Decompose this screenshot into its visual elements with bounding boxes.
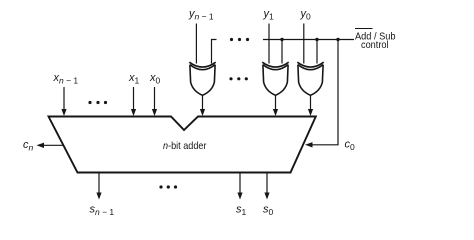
svg-text:cn: cn <box>23 139 34 153</box>
node s_{n-1} label <box>90 204 115 218</box>
svg-text:control: control <box>361 40 389 51</box>
wire XOR U2 output to adder with arrow <box>275 95 277 110</box>
svg-text:s1: s1 <box>236 204 247 218</box>
overline over Add <box>355 28 373 30</box>
svg-text:x0: x0 <box>149 72 161 86</box>
wire XOR U3 output to adder with arrow <box>310 95 312 110</box>
wire Add/Sub control horizontal line <box>263 39 354 41</box>
Add/Sub control label <box>355 32 396 52</box>
svg-text:y0: y0 <box>300 8 312 22</box>
wire y_1 to XOR U2 left input <box>268 24 270 64</box>
wire x_1 input arrow to adder <box>133 87 135 110</box>
svg-text:c0: c0 <box>345 139 356 153</box>
wire x_0 input arrow to adder <box>154 87 156 110</box>
junction dot control/U2 <box>280 38 283 41</box>
wire control drop to XOR U2 right input <box>281 40 283 64</box>
n-bit adder label <box>163 141 207 152</box>
ellipsis dots on control line <box>230 38 249 41</box>
xor-gate U2 (y_1) <box>262 62 288 95</box>
n-bit adder body (trapezoid with notch) <box>49 117 316 173</box>
wire sum s_1 output arrow <box>239 173 241 194</box>
node x_0 label <box>149 72 161 86</box>
wire c_0 branch from control line <box>312 40 338 145</box>
wire y_{n-1} to XOR U1 left input <box>195 24 197 64</box>
svg-text:s0: s0 <box>263 204 274 218</box>
wire carry-out c_n arrow <box>43 144 63 146</box>
svg-text:sn − 1: sn − 1 <box>90 204 115 218</box>
ellipsis dots between x inputs <box>88 101 107 104</box>
wire sum s_0 output arrow <box>266 173 268 194</box>
junction dot control/c_0 branch <box>336 38 339 41</box>
node y_{n-1} label <box>188 8 214 22</box>
junction dot control/U3 <box>315 38 318 41</box>
node y_1 label <box>263 8 275 22</box>
xor-gate U3 (y_0) <box>297 62 323 95</box>
xor-gate U1 (y_{n-1}) <box>189 62 215 95</box>
node c_0 label <box>345 139 356 153</box>
wire y_0 to XOR U3 left input <box>303 24 305 64</box>
wire XOR U1 output to adder with arrow <box>202 95 204 110</box>
svg-text:yn − 1: yn − 1 <box>188 8 214 22</box>
wire control drop to XOR U3 right input <box>316 40 318 64</box>
ellipsis dots between XOR gates <box>229 77 248 80</box>
node c_n label <box>23 139 34 153</box>
svg-text:n-bit adder: n-bit adder <box>163 141 207 152</box>
node s_0 label <box>263 204 274 218</box>
wire hook from Add/Sub control to XOR U1 right input <box>212 40 217 64</box>
svg-text:y1: y1 <box>263 8 275 22</box>
svg-text:x1: x1 <box>128 72 140 86</box>
svg-text:xn − 1: xn − 1 <box>53 72 79 86</box>
wire sum s_{n-1} output arrow <box>98 173 100 194</box>
node x_{n-1} label <box>53 72 79 86</box>
node y_0 label <box>300 8 312 22</box>
wire x_{n-1} input arrow to adder <box>63 87 65 110</box>
node s_1 label <box>236 204 247 218</box>
ellipsis dots between sum outputs <box>159 185 177 188</box>
node x_1 label <box>128 72 140 86</box>
